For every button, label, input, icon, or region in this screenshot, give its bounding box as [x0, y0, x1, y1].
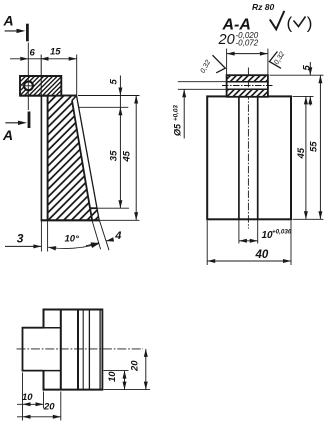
ext line x47.6 below [47, 220, 49, 251]
step horizontal edge [61, 95, 76, 97]
flange bottom face line [20, 95, 48, 97]
ext body top right [293, 95, 314, 97]
svg-text:6: 6 [30, 48, 36, 59]
svg-text:10: 10 [107, 371, 118, 382]
svg-text:20: 20 [43, 402, 55, 413]
ext line flange right up [267, 49, 269, 76]
svg-text:10°: 10° [65, 234, 80, 245]
arrow up at 103.2 [118, 107, 122, 115]
dim line 45 vertical [135, 96, 137, 221]
dim 5 lower tail [309, 96, 311, 105]
dim 3 line [5, 245, 41, 247]
dim 10 bore arrow left [239, 239, 247, 243]
outer slant edge [77, 96, 100, 221]
body outline [207, 96, 291, 219]
10deg arc [48, 244, 99, 249]
block right edge [101, 309, 103, 391]
step line x83.2 [82, 310, 84, 390]
hole centerline horizontal [222, 85, 273, 87]
ext line flange left up [226, 49, 228, 76]
dim 40 arrow left [207, 259, 215, 263]
ext x60.8 down [60, 392, 62, 421]
dim 4 arrow left [91, 242, 99, 246]
dim 20 bottom line [17, 416, 61, 418]
hole horizontal centerline [22, 85, 35, 87]
section arrow bottom: leader [5, 122, 23, 124]
svg-text:+0,036: +0,036 [272, 229, 292, 236]
dim 20 hub arrow right [53, 415, 61, 419]
dim 55 line [319, 75, 321, 219]
horizontal centerline [17, 348, 144, 350]
ext line x40.5 [40, 55, 42, 96]
ext y370.6 right [104, 370, 129, 372]
flange hatch band bottom [227, 89, 268, 97]
dim 10 side arrow down [123, 382, 127, 390]
dim 4 line right part [106, 239, 114, 241]
dim 5 right: upper tail [309, 62, 311, 75]
svg-text:45: 45 [121, 150, 132, 162]
dim 40 line [207, 260, 291, 262]
block left edge lower [43, 371, 45, 391]
arc arrowhead left [48, 246, 56, 250]
web hatch fill [48, 96, 93, 221]
arc arrowhead right [91, 244, 99, 248]
section arrow top: arrowhead [17, 29, 26, 33]
step line x60.8 [60, 310, 62, 390]
dim 6 arrow left [20, 57, 28, 61]
section arrow top: thick bar [26, 24, 29, 42]
svg-text:5: 5 [109, 79, 120, 85]
dim 40 arrow right [283, 259, 291, 263]
hole vertical centerline [27, 43, 29, 111]
dim 10 bottom line [17, 403, 44, 405]
ext x43.5 down [43, 392, 45, 409]
inner slant extension below [92, 220, 101, 249]
svg-text:-0,072: -0,072 [236, 38, 259, 47]
svg-text:15: 15 [50, 47, 61, 58]
roughness mark right [269, 52, 281, 69]
ext bottom edge right [99, 219, 139, 221]
svg-text:40: 40 [255, 249, 269, 261]
dim 10 right line [124, 371, 126, 390]
dim 10 bore arrow right [250, 239, 258, 243]
bore wall ext below right [257, 219, 259, 243]
arrow down at 95.5 [118, 88, 122, 96]
bore wall right [257, 96, 259, 219]
roughness mark left [213, 55, 226, 73]
svg-text:35: 35 [109, 150, 120, 161]
hole bottom edge [227, 88, 268, 90]
step line x78 [77, 310, 79, 390]
dim 5 arrow down [308, 67, 312, 75]
ext flange top right [270, 74, 324, 76]
dim 4 arrow right [106, 237, 114, 241]
part left edge below flange [40, 96, 42, 221]
boss outline [23, 328, 44, 371]
dia5 arrow up [182, 89, 186, 97]
inner slant lower segment [90, 208, 92, 220]
block outline top [44, 309, 103, 311]
svg-text:5: 5 [302, 65, 313, 71]
base corner hatch triangle [90, 208, 99, 220]
hole in flange [24, 81, 33, 90]
hole top edge [227, 81, 268, 83]
chamfer at step corner [72, 96, 77, 101]
base step edge [90, 207, 97, 209]
hub bottom edge inside block [44, 370, 61, 372]
dim 15 arrow right [69, 57, 77, 61]
dim 55 arrow down [318, 211, 322, 219]
dim 20 side arrow up [144, 349, 148, 357]
svg-text:20: 20 [218, 32, 235, 48]
dia5 leader line [183, 89, 185, 138]
step line x100.1 [99, 310, 101, 390]
dim 6 arrow right [41, 57, 49, 61]
ext body right down [290, 221, 292, 266]
dim 10 hub arrow right [36, 402, 44, 406]
ext body left down [206, 221, 208, 266]
svg-text:3: 3 [17, 231, 24, 245]
arrow down at 220.3 [134, 212, 138, 220]
bore wall ext below left [238, 219, 240, 243]
dim 20 side arrow down [144, 382, 148, 390]
svg-text:(: ( [287, 14, 293, 33]
hole ext line top left [178, 81, 227, 83]
dim 45 arrow up [304, 96, 308, 104]
flange hatch fill [20, 76, 61, 96]
dim 20 arrow left [227, 52, 235, 56]
svg-text:45: 45 [296, 147, 307, 159]
section arrow bottom: arrowhead [18, 121, 27, 125]
dim 3 arrow [33, 244, 41, 248]
dim 10+0,036 line [239, 240, 258, 242]
bottom edge [41, 219, 100, 221]
dim 55 arrow up [318, 75, 322, 83]
svg-text:A: A [3, 13, 14, 29]
ext bottom right [293, 218, 324, 220]
svg-text:): ) [307, 14, 313, 33]
svg-text:Ø5: Ø5 [173, 123, 183, 136]
arrow up at 95.5 [134, 96, 138, 104]
step line x89.4 [88, 310, 90, 390]
ext line y103.2 right [79, 106, 128, 108]
dim 4 line left part [86, 243, 99, 246]
svg-text:20: 20 [130, 360, 141, 372]
hole ext line bottom left [178, 88, 227, 90]
dim 6/15 line [10, 58, 77, 60]
dim 45 line [305, 96, 307, 219]
outer slant extension below [99, 220, 109, 250]
dim 5 arrow up [308, 96, 312, 104]
dim 10 side arrow up [123, 371, 127, 379]
svg-text:Rz 80: Rz 80 [252, 2, 274, 12]
block left edge upper [43, 309, 45, 328]
svg-text:10: 10 [22, 392, 33, 403]
hub top edge inside block [44, 327, 61, 329]
flange hatch band top [227, 75, 268, 82]
ext line x41.4 below [40, 220, 42, 251]
axis centerline [247, 68, 249, 229]
flange outline [227, 75, 268, 97]
dim 20 line [227, 53, 268, 55]
ext y389.6 right [104, 389, 151, 391]
web left face edge [47, 96, 49, 221]
dim 10 hub arrow left [23, 402, 31, 406]
big check mark [270, 11, 285, 29]
ext line y208.2 right [97, 207, 129, 209]
svg-text:55: 55 [308, 141, 319, 152]
section arrow top: leader [5, 30, 22, 32]
flange outline [20, 76, 61, 96]
small check mark [294, 17, 306, 27]
section arrow bottom: thick bar [28, 112, 31, 129]
svg-text:4: 4 [114, 230, 121, 242]
dim 45 arrow down [304, 211, 308, 219]
ext x22.5 down [22, 373, 24, 421]
bore wall left [238, 96, 240, 219]
arrow down at 208.2 [118, 200, 122, 208]
dim 20 arrow right [260, 52, 268, 56]
ext line x76.7 [76, 55, 78, 96]
dim 20 right line [145, 349, 147, 390]
inner slant edge [72, 101, 90, 209]
block outline bottom [44, 389, 103, 391]
dim line 5/35 vertical [119, 76, 121, 209]
svg-text:+0,03: +0,03 [173, 105, 180, 121]
svg-text:A: A [2, 127, 13, 143]
ext line y95.5 right [78, 95, 140, 97]
dim 20 hub arrow left [23, 415, 31, 419]
